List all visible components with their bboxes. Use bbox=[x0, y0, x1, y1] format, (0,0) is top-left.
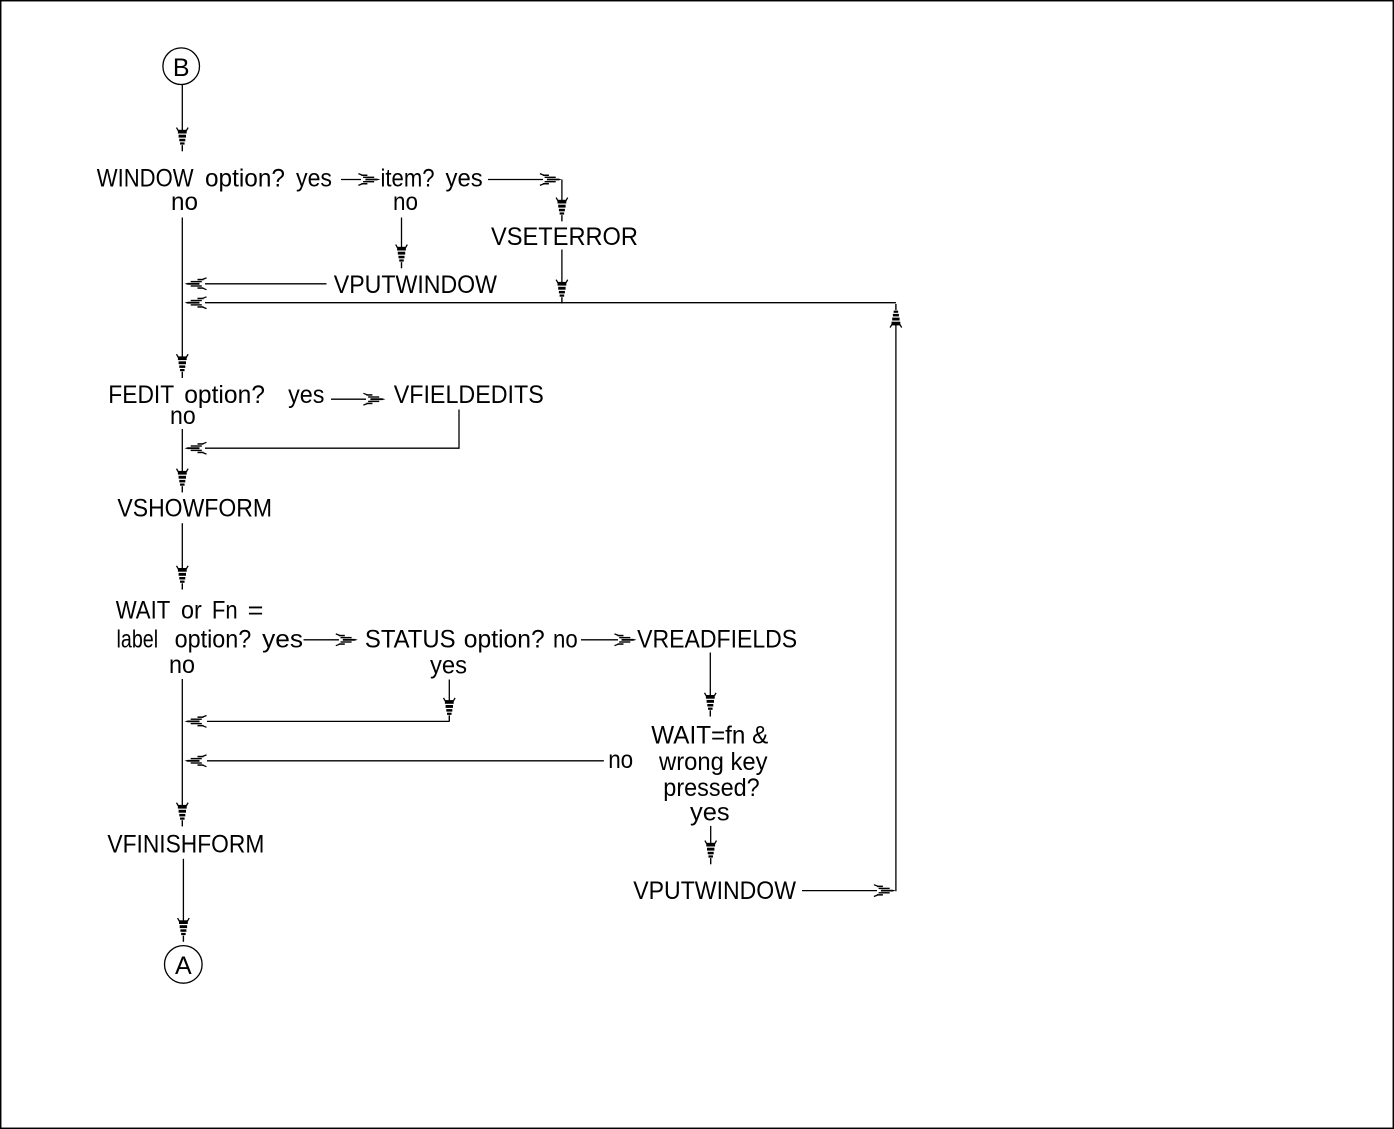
svg-text:yes: yes bbox=[690, 799, 730, 827]
wire VPUTWINDOW right to return line bbox=[802, 890, 877, 892]
svg-text:option?: option? bbox=[464, 625, 545, 653]
wire VSETERROR down to return line bbox=[561, 250, 563, 285]
svg-text:no: no bbox=[553, 625, 578, 653]
svg-text:VSHOWFORM: VSHOWFORM bbox=[117, 495, 272, 523]
wire VFIELDEDITS return to spine bbox=[205, 410, 459, 449]
svg-text:or: or bbox=[181, 597, 202, 625]
svg-text:STATUS: STATUS bbox=[365, 625, 456, 653]
wire item yes to VSETERROR bbox=[488, 179, 543, 181]
svg-text:pressed?: pressed? bbox=[663, 774, 759, 802]
wire spine FEDIT-no down to VSHOWFORM bbox=[181, 429, 183, 472]
wire FEDIT yes to VFIELDEDITS bbox=[331, 398, 366, 400]
svg-text:option?: option? bbox=[184, 381, 265, 409]
svg-text:no: no bbox=[393, 188, 418, 216]
svg-text:yes: yes bbox=[296, 165, 332, 193]
wire VREADFIELDS down to WAIT=fn bbox=[709, 653, 711, 697]
wire spine WINDOW-no down to FEDIT bbox=[181, 218, 183, 358]
svg-text:wrong key: wrong key bbox=[658, 748, 768, 776]
wire VPUTWINDOW to spine bbox=[205, 283, 327, 285]
svg-text:=: = bbox=[248, 597, 264, 625]
svg-text:option?: option? bbox=[175, 625, 252, 653]
svg-text:yes: yes bbox=[262, 625, 303, 653]
wire wrongkey-yes down to VPUTWINDOW bbox=[710, 826, 712, 845]
svg-text:yes: yes bbox=[288, 381, 324, 409]
wire yes to item? bbox=[341, 179, 361, 181]
wire STATUS-no to VREADFIELDS bbox=[581, 639, 618, 641]
connector circle A bbox=[165, 946, 203, 984]
svg-text:VSETERROR: VSETERROR bbox=[491, 223, 638, 251]
svg-text:no: no bbox=[169, 651, 195, 679]
wire wrongkey-no to spine bbox=[207, 760, 604, 762]
svg-text:WAIT: WAIT bbox=[116, 597, 171, 625]
svg-text:VFINISHFORM: VFINISHFORM bbox=[107, 830, 264, 858]
wire VSHOWFORM down to WAIT bbox=[181, 523, 183, 569]
svg-text:Fn: Fn bbox=[212, 597, 238, 625]
svg-text:no: no bbox=[608, 746, 633, 774]
svg-text:FEDIT: FEDIT bbox=[108, 381, 174, 409]
svg-text:yes: yes bbox=[446, 165, 483, 193]
wire long return line to spine bbox=[205, 302, 896, 304]
wire spine WAIT-no down to VFINISHFORM bbox=[181, 679, 183, 806]
svg-text:VFIELDEDITS: VFIELDEDITS bbox=[394, 381, 544, 409]
svg-text:B: B bbox=[173, 54, 190, 82]
svg-text:no: no bbox=[170, 402, 196, 430]
wire right return line up bbox=[895, 324, 897, 891]
wire B to WINDOW bbox=[181, 85, 183, 132]
svg-text:no: no bbox=[171, 188, 198, 216]
svg-text:VPUTWINDOW: VPUTWINDOW bbox=[334, 271, 498, 299]
svg-text:option?: option? bbox=[205, 165, 285, 193]
wire item-no down to VPUTWINDOW bbox=[401, 218, 403, 249]
connector circle B bbox=[163, 48, 200, 85]
wire label-yes to STATUS bbox=[304, 639, 340, 641]
svg-text:label: label bbox=[117, 625, 159, 653]
svg-text:A: A bbox=[175, 952, 192, 980]
wire STATUS-yes down to spine bbox=[448, 680, 450, 703]
wire VFINISHFORM down to A bbox=[182, 859, 184, 922]
svg-text:WAIT=fn &: WAIT=fn & bbox=[651, 721, 768, 749]
svg-text:VPUTWINDOW: VPUTWINDOW bbox=[633, 877, 796, 905]
svg-text:VREADFIELDS: VREADFIELDS bbox=[637, 625, 797, 653]
svg-text:yes: yes bbox=[430, 652, 467, 680]
